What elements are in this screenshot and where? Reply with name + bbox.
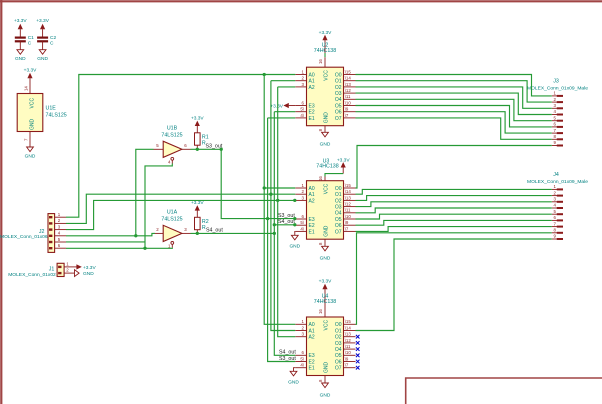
wire U3.O4 to J4.4 xyxy=(356,208,552,213)
svg-text:+3.3V: +3.3V xyxy=(319,279,332,285)
net label S3_out at U1B output xyxy=(206,144,223,150)
svg-text:O5: O5 xyxy=(335,353,342,359)
net label S3_out at U3.E3 xyxy=(278,213,295,219)
wire S3_out down to U3.E3 xyxy=(221,149,295,218)
svg-text:J4: J4 xyxy=(553,172,559,178)
svg-text:A1: A1 xyxy=(309,328,315,334)
wire to U1A input xyxy=(136,233,155,235)
wire U2.A1 entry xyxy=(271,80,295,82)
svg-text:VCC: VCC xyxy=(324,320,330,331)
wire J2.3 to U3.A2 xyxy=(66,200,295,229)
power +3.3V at J1 pin 1 xyxy=(71,265,97,271)
svg-text:C: C xyxy=(28,40,32,46)
wire S4 branch to U3.E2 xyxy=(274,224,295,226)
power +3.3V for U1E xyxy=(24,67,37,80)
wire U3.O3 to J4.3 xyxy=(356,202,552,207)
svg-text:\14: \14 xyxy=(345,189,352,194)
wire U2.O2 to J3.3 xyxy=(356,87,552,108)
power +3.3V for U2 xyxy=(319,30,332,53)
ground for U2 xyxy=(320,132,331,147)
svg-text:5: 5 xyxy=(58,237,61,242)
svg-text:4\: 4\ xyxy=(300,226,304,231)
svg-text:A0: A0 xyxy=(309,72,315,78)
svg-text:\10: \10 xyxy=(345,100,352,105)
junction S4_out / S4 vertical xyxy=(273,232,276,235)
svg-text:74LS125: 74LS125 xyxy=(161,133,182,139)
svg-text:5: 5 xyxy=(554,115,557,120)
capacitor C2 xyxy=(37,35,56,50)
svg-text:3: 3 xyxy=(302,82,305,87)
svg-text:O7: O7 xyxy=(335,229,342,235)
pin 8 of U2 xyxy=(318,126,325,133)
wire U4.O1 to J4.9 xyxy=(356,239,552,331)
svg-text:8: 8 xyxy=(554,134,557,139)
svg-text:GND: GND xyxy=(288,380,299,386)
svg-text:1: 1 xyxy=(302,183,305,188)
svg-text:6: 6 xyxy=(302,100,305,105)
junction S3 vertical at U3.E3 wire xyxy=(266,217,269,220)
svg-text:O0: O0 xyxy=(335,72,342,78)
wire U4.O0 to J4.8 xyxy=(356,233,552,324)
junction at U3 pin E2 xyxy=(293,223,296,226)
svg-text:O7: O7 xyxy=(335,366,342,372)
svg-text:3: 3 xyxy=(554,103,557,108)
pin 8 of U4 xyxy=(318,376,325,384)
svg-text:7: 7 xyxy=(554,221,557,226)
svg-text:GND: GND xyxy=(320,255,331,261)
power +3.3V at U2 pin E3 xyxy=(270,103,295,109)
pin 16 of U3 xyxy=(318,176,325,181)
svg-text:4: 4 xyxy=(58,231,61,236)
wire A0 branch to U3.A0 xyxy=(264,187,295,189)
junction node A0 at U3 xyxy=(263,186,266,189)
svg-text:J3: J3 xyxy=(553,79,559,85)
svg-text:GND: GND xyxy=(37,56,48,62)
wire U3.O1 to J4.1 xyxy=(356,189,552,194)
svg-text:GND: GND xyxy=(83,271,94,277)
pin 16 of U4 xyxy=(318,303,325,317)
svg-text:+3.3V: +3.3V xyxy=(14,18,27,24)
svg-text:E1: E1 xyxy=(309,116,315,122)
svg-text:6: 6 xyxy=(554,122,557,127)
ground at U3 pin E1 xyxy=(289,231,300,249)
svg-text:MOLEX_Conn_01x09_Male: MOLEX_Conn_01x09_Male xyxy=(527,85,588,91)
wire U2.O7 to J3.8 xyxy=(356,118,552,139)
junction node S3_out corner xyxy=(220,148,223,151)
svg-text:\12: \12 xyxy=(345,338,352,343)
wire xyxy=(42,33,44,37)
svg-text:E2: E2 xyxy=(309,110,315,116)
IC U2 74HC138 decoder xyxy=(295,67,355,126)
svg-text:1: 1 xyxy=(302,69,305,74)
svg-text:O3: O3 xyxy=(335,341,342,347)
svg-text:4: 4 xyxy=(168,159,171,164)
svg-text:A2: A2 xyxy=(309,198,315,204)
svg-text:8: 8 xyxy=(318,379,323,382)
svg-text:5: 5 xyxy=(554,209,557,214)
svg-text:\15: \15 xyxy=(345,319,352,324)
svg-text:VCC: VCC xyxy=(324,70,330,81)
svg-text:74HC138: 74HC138 xyxy=(316,164,338,170)
IC U3 74HC138 decoder xyxy=(295,181,355,240)
power +3.3V for R1 xyxy=(191,116,204,128)
svg-text:2: 2 xyxy=(58,218,61,223)
svg-text:8: 8 xyxy=(554,228,557,233)
svg-text:C: C xyxy=(50,40,54,46)
svg-text:4\: 4\ xyxy=(300,363,304,368)
svg-text:E2: E2 xyxy=(309,223,315,229)
svg-text:1: 1 xyxy=(302,319,305,324)
svg-text:1: 1 xyxy=(554,91,557,96)
svg-text:\13: \13 xyxy=(345,82,352,87)
ground at J1 pin 2 xyxy=(71,270,95,277)
junction node A1 at U3 xyxy=(269,193,272,196)
ground for C1 xyxy=(15,50,26,62)
svg-text:3: 3 xyxy=(58,224,61,229)
svg-text:16: 16 xyxy=(318,59,323,64)
label U4 xyxy=(314,294,336,305)
svg-text:3: 3 xyxy=(184,227,187,232)
svg-text:\7: \7 xyxy=(345,226,349,231)
svg-text:9: 9 xyxy=(554,234,557,239)
power +3.3V for U3 xyxy=(337,157,350,173)
svg-text:O4: O4 xyxy=(335,347,342,353)
ground at U4 pin E1 xyxy=(288,368,299,386)
pin 16 of U2 xyxy=(318,57,325,67)
junction at U3 pin E3 xyxy=(293,217,296,220)
ground for U1E xyxy=(25,147,36,160)
svg-text:C1: C1 xyxy=(28,35,34,41)
svg-text:E3: E3 xyxy=(309,353,315,359)
junction at U3 pin A2 xyxy=(293,199,296,202)
power +3.3V for U4 xyxy=(319,279,332,304)
wire S3_out net xyxy=(191,148,222,150)
svg-text:+3.3V: +3.3V xyxy=(319,30,332,36)
wire U2.O1 to J3.2 xyxy=(356,81,552,102)
power +3.3V for C1 xyxy=(14,18,27,33)
wire J2.5 to enable xyxy=(66,241,145,243)
wire enable vertical xyxy=(145,164,172,249)
svg-text:+3.3V: +3.3V xyxy=(191,200,204,206)
svg-text:\10: \10 xyxy=(345,350,352,355)
svg-text:+3.3V: +3.3V xyxy=(191,116,204,122)
wire A1 vertical xyxy=(271,81,295,331)
svg-text:+3.3V: +3.3V xyxy=(270,104,283,110)
power +3.3V for C2 xyxy=(36,18,49,33)
wire U2.E2 entry xyxy=(274,111,295,113)
wire U3.O6 to J4.6 xyxy=(356,220,552,225)
wire S3 vertical xyxy=(268,118,296,362)
svg-text:A1: A1 xyxy=(309,192,315,198)
wire J2.4 to buffers input xyxy=(66,235,136,237)
svg-text:GND: GND xyxy=(289,244,300,250)
svg-text:A0: A0 xyxy=(309,322,315,328)
svg-text:\11: \11 xyxy=(345,94,351,99)
svg-text:O0: O0 xyxy=(335,322,342,328)
svg-text:A0: A0 xyxy=(309,186,315,192)
wire J2.2 to U3.A1 xyxy=(66,194,295,223)
svg-text:\13: \13 xyxy=(345,195,352,200)
svg-text:\15: \15 xyxy=(345,183,352,188)
svg-text:J2: J2 xyxy=(39,229,45,235)
label U3 xyxy=(316,158,338,169)
ground for U4 xyxy=(320,383,331,398)
svg-text:\11: \11 xyxy=(345,208,351,213)
buffer U1B 74LS125 (pins 5,6, enable 4) xyxy=(154,126,191,165)
svg-text:GND: GND xyxy=(324,112,330,124)
wire U2.O0 to J3.1 xyxy=(356,75,552,96)
wire U2.E1 entry xyxy=(268,117,296,119)
wire to U1B input xyxy=(136,149,154,236)
IC U4 74HC138 decoder xyxy=(295,317,359,376)
svg-text:MOLEX_Conn_01x02: MOLEX_Conn_01x02 xyxy=(8,272,56,278)
junction buffers input node xyxy=(134,234,137,237)
resistor R1 xyxy=(195,128,209,150)
buffer U1A 74LS125 (pins 2,3, enable 1) xyxy=(154,210,191,249)
svg-text:16: 16 xyxy=(318,309,323,314)
svg-text:O2: O2 xyxy=(335,335,342,341)
junction R1 / S3_out xyxy=(196,148,199,151)
ground for U3 xyxy=(320,246,331,261)
svg-text:\15: \15 xyxy=(345,69,352,74)
svg-text:6: 6 xyxy=(554,215,557,220)
svg-text:4\: 4\ xyxy=(300,113,304,118)
svg-text:O6: O6 xyxy=(335,110,342,116)
wire J2.1 to U2.A0 xyxy=(66,75,295,218)
svg-text:O1: O1 xyxy=(335,328,342,334)
svg-text:3: 3 xyxy=(554,197,557,202)
connector J2 MOLEX_Conn_01x06 xyxy=(0,212,66,252)
svg-text:O1: O1 xyxy=(335,79,342,85)
svg-text:7: 7 xyxy=(554,128,557,133)
svg-text:1: 1 xyxy=(168,243,171,248)
pin 8 of U3 xyxy=(318,239,325,246)
IC U1E 74LS125 power unit xyxy=(17,94,67,132)
ground for C2 xyxy=(37,50,48,62)
svg-text:O5: O5 xyxy=(335,103,342,109)
svg-text:3: 3 xyxy=(302,332,305,337)
wire U3.O7 to J4.7 xyxy=(356,227,552,232)
connector J1 MOLEX_Conn_01x02 xyxy=(8,262,70,279)
wire A0 vertical xyxy=(264,75,295,325)
svg-text:+3.3V: +3.3V xyxy=(337,157,350,163)
svg-text:2: 2 xyxy=(302,189,305,194)
resistor R2 xyxy=(195,212,209,233)
svg-text:3: 3 xyxy=(302,195,305,200)
svg-text:5\: 5\ xyxy=(300,220,304,225)
svg-text:GND: GND xyxy=(324,225,330,237)
svg-text:6: 6 xyxy=(302,350,305,355)
svg-text:U1B: U1B xyxy=(167,126,178,132)
wire J2.6 to U1A enable xyxy=(66,247,172,250)
svg-text:\9: \9 xyxy=(345,220,349,225)
svg-text:1: 1 xyxy=(66,262,69,267)
svg-text:5: 5 xyxy=(156,143,159,148)
svg-text:O6: O6 xyxy=(335,359,342,365)
svg-text:E3: E3 xyxy=(309,103,315,109)
junction enable net xyxy=(143,247,146,250)
net label S4_out at U4.E3 xyxy=(279,350,296,356)
svg-text:5\: 5\ xyxy=(300,107,304,112)
svg-text:8: 8 xyxy=(318,242,323,245)
svg-text:6: 6 xyxy=(184,143,187,148)
svg-text:O3: O3 xyxy=(335,205,342,211)
svg-text:14: 14 xyxy=(23,86,28,91)
connector J3 MOLEX_Conn_01x09_Male xyxy=(527,79,588,147)
svg-text:5\: 5\ xyxy=(300,356,304,361)
svg-text:E2: E2 xyxy=(309,359,315,365)
label U2 xyxy=(314,43,336,54)
svg-text:2: 2 xyxy=(554,190,557,195)
svg-text:1: 1 xyxy=(58,212,61,217)
svg-text:2: 2 xyxy=(302,325,305,330)
wire xyxy=(324,53,326,57)
net label S3_out at U4.E2 xyxy=(279,356,296,362)
svg-text:GND: GND xyxy=(25,154,36,160)
svg-text:GND: GND xyxy=(324,362,330,374)
wire U2.O4 to J3.5 xyxy=(356,99,552,120)
junction node A2 at U3 xyxy=(276,199,279,202)
svg-text:A2: A2 xyxy=(309,335,315,341)
svg-text:A1: A1 xyxy=(309,79,315,85)
svg-text:\14: \14 xyxy=(345,325,352,330)
svg-text:74LS125: 74LS125 xyxy=(161,217,182,223)
svg-text:\10: \10 xyxy=(345,214,352,219)
svg-text:6: 6 xyxy=(302,214,305,219)
svg-text:C2: C2 xyxy=(50,35,56,41)
svg-text:GND: GND xyxy=(320,141,331,147)
svg-text:74HC138: 74HC138 xyxy=(314,48,336,54)
svg-text:VCC: VCC xyxy=(324,183,330,194)
pin 7 of U1E xyxy=(23,132,30,148)
svg-text:A2: A2 xyxy=(309,85,315,91)
title block frame corner (bottom right) xyxy=(406,378,602,404)
net label S4_out at U1A output xyxy=(206,228,223,234)
svg-text:2: 2 xyxy=(302,76,305,81)
svg-text:O5: O5 xyxy=(335,217,342,223)
svg-text:E3: E3 xyxy=(309,217,315,223)
svg-text:16: 16 xyxy=(318,176,323,181)
capacitor C1 xyxy=(15,35,34,50)
svg-text:O3: O3 xyxy=(335,91,342,97)
connector J4 MOLEX_Conn_01x09_Male xyxy=(527,172,588,240)
pin 14 of U1E xyxy=(23,80,30,94)
wire U2.O3 to J3.4 xyxy=(356,93,552,114)
svg-text:2: 2 xyxy=(66,268,69,273)
wire S4_out net xyxy=(191,232,275,234)
svg-text:GND: GND xyxy=(320,392,331,398)
svg-text:O4: O4 xyxy=(335,211,342,217)
svg-text:\9: \9 xyxy=(345,356,349,361)
svg-text:J1: J1 xyxy=(49,266,55,272)
wire U2.O6 to J3.7 xyxy=(356,112,552,133)
junction R2 / S4_out xyxy=(196,232,199,235)
svg-text:\12: \12 xyxy=(345,88,352,93)
net label S4_out at U3.E2 xyxy=(278,219,295,225)
svg-text:4: 4 xyxy=(554,109,557,114)
svg-text:O6: O6 xyxy=(335,223,342,229)
svg-text:\13: \13 xyxy=(345,332,352,337)
svg-text:+3.3V: +3.3V xyxy=(36,18,49,24)
svg-text:\11: \11 xyxy=(345,344,351,349)
svg-text:\7: \7 xyxy=(345,363,349,368)
svg-text:O1: O1 xyxy=(335,192,342,198)
svg-text:MOLEX_Conn_01x06: MOLEX_Conn_01x06 xyxy=(0,234,48,240)
svg-text:MOLEX_Conn_01x09_Male: MOLEX_Conn_01x09_Male xyxy=(527,179,588,185)
svg-text:1: 1 xyxy=(554,184,557,189)
wire U3.O0 to J3.9 xyxy=(356,146,552,189)
svg-text:8: 8 xyxy=(318,128,323,131)
junction node A0 at U2 xyxy=(263,73,266,76)
svg-text:2: 2 xyxy=(156,227,159,232)
wire S4 vertical xyxy=(274,112,295,356)
svg-text:VCC: VCC xyxy=(30,98,36,109)
svg-text:2: 2 xyxy=(554,97,557,102)
wire VCC of U3 xyxy=(325,174,343,177)
power +3.3V for R2 xyxy=(191,200,204,212)
wire U2.A2 entry xyxy=(278,86,296,88)
wire xyxy=(19,33,21,37)
svg-text:+3.3V: +3.3V xyxy=(83,265,96,271)
svg-text:\9: \9 xyxy=(345,107,349,112)
svg-text:U1E: U1E xyxy=(46,106,57,112)
svg-text:O7: O7 xyxy=(335,116,342,122)
svg-text:O0: O0 xyxy=(335,186,342,192)
wire U2.O5 to J3.6 xyxy=(356,106,552,127)
svg-text:\7: \7 xyxy=(345,113,349,118)
svg-text:O2: O2 xyxy=(335,198,342,204)
svg-text:GND: GND xyxy=(15,56,26,62)
svg-text:74LS125: 74LS125 xyxy=(46,113,67,119)
svg-text:4: 4 xyxy=(554,203,557,208)
svg-text:U1A: U1A xyxy=(167,210,178,216)
svg-text:S4_out: S4_out xyxy=(206,228,223,234)
svg-text:E1: E1 xyxy=(309,366,315,372)
svg-text:E1: E1 xyxy=(309,229,315,235)
wire A2 vertical xyxy=(278,87,296,337)
svg-text:O2: O2 xyxy=(335,85,342,91)
wire U3.O2 to J4.2 xyxy=(356,196,552,201)
svg-text:O4: O4 xyxy=(335,97,342,103)
svg-text:\12: \12 xyxy=(345,202,352,207)
svg-text:6: 6 xyxy=(58,243,61,248)
svg-text:GND: GND xyxy=(30,119,36,131)
junction S4 vertical at U3.E2 wire xyxy=(273,223,276,226)
svg-text:7: 7 xyxy=(23,138,28,141)
svg-text:+3.3V: +3.3V xyxy=(24,67,37,73)
svg-text:\14: \14 xyxy=(345,76,352,81)
wire U3.O5 to J4.5 xyxy=(356,214,552,219)
svg-text:9: 9 xyxy=(554,140,557,145)
